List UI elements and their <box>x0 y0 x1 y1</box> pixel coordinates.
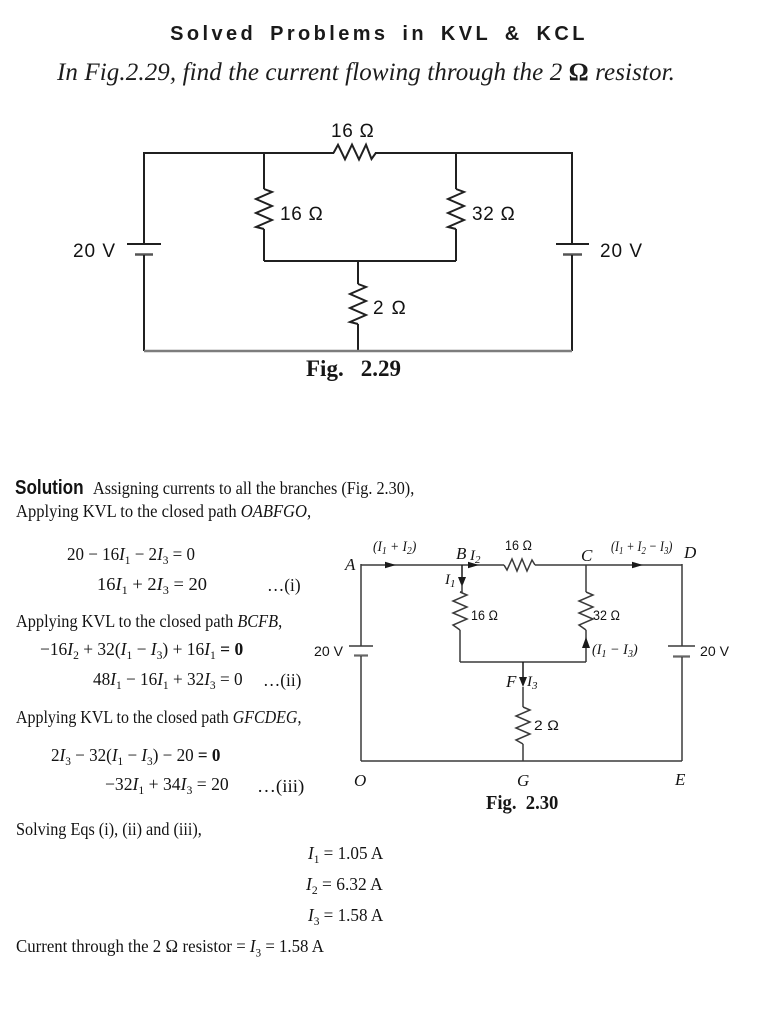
current arrow (I1+I2-I3) <box>632 562 643 569</box>
caption Fig. 2.29 <box>306 356 401 382</box>
result I1 <box>308 843 383 864</box>
svg-text:20 V: 20 V <box>600 241 642 262</box>
wire: F branch lead <box>522 687 524 707</box>
svg-text:A: A <box>344 555 356 574</box>
resistor 2ohm fig2.30 <box>516 707 530 744</box>
label (i) <box>267 575 301 596</box>
battery left fig2.30 short plate <box>354 654 368 656</box>
svg-text:C: C <box>581 546 593 565</box>
wire: top B to C <box>462 564 504 566</box>
svg-text:I3: I3 <box>526 674 538 692</box>
svg-text:I1: I1 <box>444 572 456 590</box>
svg-text:2 Ω: 2 Ω <box>373 298 406 319</box>
wire: 16ohm branch bottom lead <box>263 229 265 261</box>
equation -16I2+32(I1-I3)+16I1=0 <box>40 639 243 660</box>
page title <box>0 23 763 46</box>
equation 20-16I1-2I3=0 <box>67 544 195 565</box>
battery V1 left plate long <box>127 243 161 245</box>
wire: inner horizontal <box>264 260 456 262</box>
figure 2.29 schematic <box>0 0 768 400</box>
wire: bottom O to E <box>361 760 682 762</box>
svg-text:16 Ω: 16 Ω <box>331 121 374 142</box>
svg-text:20 V: 20 V <box>314 643 344 659</box>
solution text line 2 <box>16 501 311 522</box>
wire: right vertical lower <box>571 255 573 351</box>
label (I1+I2) <box>373 538 417 557</box>
wire: top C to D <box>535 564 682 566</box>
svg-text:I2: I2 <box>469 548 481 566</box>
equation 48I1-16I1+32I3=0 <box>93 669 243 690</box>
svg-text:2 Ω: 2 Ω <box>534 717 559 733</box>
current arrow I3 below F <box>522 662 524 684</box>
wire: B branch lead <box>460 584 462 592</box>
svg-text:16 Ω: 16 Ω <box>471 607 498 623</box>
wire: 32ohm branch top lead <box>455 153 457 189</box>
equation -32I1+34I3=20 <box>105 774 229 795</box>
wire: 2ohm branch top lead <box>357 261 359 284</box>
wire: left vertical lower <box>143 255 145 351</box>
wire: right vertical lower fig2.30 <box>681 657 683 761</box>
resistor 32ohm (vertical zigzag) <box>448 189 464 229</box>
svg-text:(I1 + I2): (I1 + I2) <box>373 538 417 557</box>
label (ii) <box>263 670 301 691</box>
battery V2 right plate long <box>556 243 589 245</box>
battery right fig2.30 short plate <box>673 655 690 657</box>
svg-text:32 Ω: 32 Ω <box>593 607 620 623</box>
final answer <box>16 936 324 961</box>
wire: left vertical upper fig2.30 <box>360 564 362 646</box>
resistor 16ohm middle (vertical zigzag) <box>256 189 272 229</box>
result I2 <box>306 874 383 895</box>
svg-text:20 V: 20 V <box>700 643 730 659</box>
wire: G branch bottom lead <box>522 744 524 761</box>
svg-text:D: D <box>683 543 697 562</box>
svg-text:G: G <box>517 771 529 790</box>
figure 2.30 schematic <box>0 500 768 820</box>
result I3 <box>308 905 383 926</box>
wire: right vertical upper fig2.30 <box>681 564 683 646</box>
battery left fig2.30 long plate <box>349 645 373 647</box>
battery right fig2.30 long plate <box>668 645 695 647</box>
wire: C branch top lead <box>585 565 587 592</box>
equation 16I1+2I3=20 <box>97 574 207 595</box>
wire: right vertical upper <box>571 152 573 244</box>
wire: 16ohm branch top lead <box>263 153 265 189</box>
resistor 2ohm (vertical zigzag) <box>350 284 366 324</box>
current arrow (I1-I3) upward <box>585 630 587 662</box>
label (iii) <box>257 776 304 797</box>
svg-text:16 Ω: 16 Ω <box>505 537 532 553</box>
current arrow I2 after B <box>468 562 479 569</box>
svg-text:(I1 − I3): (I1 − I3) <box>592 642 638 660</box>
current arrow I1 below B <box>461 565 463 584</box>
svg-text:32 Ω: 32 Ω <box>472 204 515 225</box>
label (I1+I2-I3) <box>611 538 673 558</box>
wire: B branch bottom lead <box>459 630 461 662</box>
label (I1-I3) <box>592 642 638 660</box>
resistor 16ohm top (horizontal zigzag) <box>334 145 376 160</box>
svg-text:20 V: 20 V <box>73 241 115 262</box>
wire: top right segment <box>375 152 572 154</box>
resistor 32ohm fig2.30 <box>579 592 593 630</box>
wire: bottom horizontal <box>144 350 572 353</box>
text applying KVL BCFB <box>16 611 282 632</box>
svg-text:O: O <box>354 771 366 790</box>
current arrow (I1+I2) <box>385 562 396 569</box>
svg-text:F: F <box>505 672 517 691</box>
battery V2 right plate short <box>563 253 582 256</box>
svg-text:E: E <box>674 770 686 789</box>
wire: inner horizontal fig2.30 <box>460 661 586 663</box>
svg-text:(I1 + I2 − I3): (I1 + I2 − I3) <box>611 538 673 558</box>
solution text line 1 <box>93 478 414 499</box>
text solving eqs <box>16 819 202 840</box>
svg-text:16 Ω: 16 Ω <box>280 204 323 225</box>
text applying KVL GFCDEG <box>16 707 301 728</box>
wire: 32ohm branch bottom lead <box>455 229 457 261</box>
caption Fig. 2.30 <box>486 792 558 815</box>
svg-text:B: B <box>456 544 467 563</box>
solution heading word <box>15 477 84 500</box>
battery V1 left plate short <box>135 253 153 256</box>
wire: top A to B <box>361 564 462 566</box>
problem statement <box>57 59 675 87</box>
resistor 16ohm top fig2.30 <box>504 559 535 571</box>
wire: 2ohm branch bottom lead <box>357 324 359 351</box>
wire: left vertical lower fig2.30 <box>360 656 362 761</box>
resistor 16ohm vertical fig2.30 <box>453 592 467 630</box>
wire: left vertical upper <box>143 152 145 244</box>
equation 2I3-32(I1-I3)-20=0 <box>51 745 220 766</box>
wire: top left segment <box>144 152 334 154</box>
